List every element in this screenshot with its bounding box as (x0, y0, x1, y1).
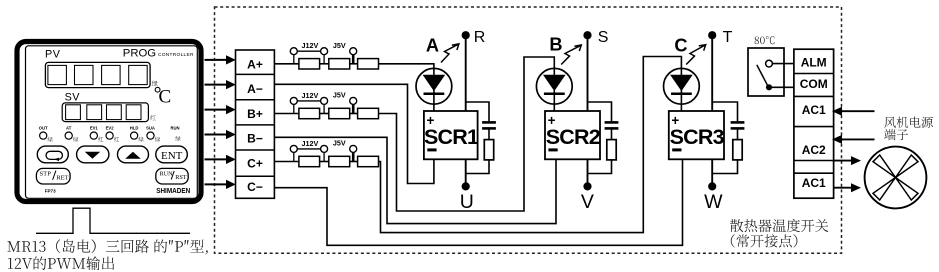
svg-text:SHIMADEN: SHIMADEN (156, 186, 190, 195)
svg-text:PV: PV (45, 49, 61, 61)
wire phase line R (465, 35, 467, 186)
svg-text:B−: B− (247, 132, 263, 146)
wire PWM output arrow to B- (205, 130, 236, 139)
jumper post 2 C (323, 149, 325, 162)
cooling fan (865, 147, 927, 209)
svg-text:J5V: J5V (333, 91, 346, 100)
node S junction dot (583, 31, 591, 39)
dashed enclosure (SCR power unit) (215, 7, 842, 253)
wire PWM output arrow to A- (205, 80, 236, 89)
fan power terminal block ALM/COM/AC1/AC2/AC1 (794, 49, 834, 198)
wire snubber branch ch2 (588, 102, 612, 121)
wire snubber return ch3 (712, 160, 737, 174)
svg-text:C+: C+ (247, 156, 263, 170)
opto LED D3 (664, 68, 700, 104)
svg-text:J5V: J5V (333, 41, 346, 50)
input terminal block A+/A-/B+/B-/C+/C- (236, 50, 275, 198)
SCR module U2 (SCR2) (545, 111, 600, 159)
SCR module U3 (SCR3) (669, 111, 724, 159)
svg-text:RST: RST (175, 174, 187, 181)
snubber resistor Rs2 (607, 140, 616, 160)
snubber resistor Rs1 (484, 140, 493, 160)
arrow fan power in AC1 (832, 107, 875, 116)
svg-text:U: U (460, 191, 474, 213)
wire PWM output arrow to B+ (205, 105, 236, 114)
led SUA color (155, 137, 160, 142)
svg-text:HLD: HLD (130, 126, 139, 131)
jumper link J12V A (294, 50, 324, 52)
resistor R2B (329, 108, 350, 118)
node T junction dot (708, 31, 716, 39)
jumper post 2 A (323, 51, 325, 64)
resistor R1B (299, 108, 320, 118)
SCR module U1 (SCR1) (424, 111, 478, 159)
led OUT color (48, 137, 53, 142)
svg-text:AC1: AC1 (802, 103, 826, 117)
wire snubber return ch2 (588, 160, 612, 174)
svg-text:J12V: J12V (302, 41, 319, 50)
svg-text:AC1: AC1 (802, 176, 826, 190)
opto LED D2 (536, 68, 572, 104)
jumper post 1 A (293, 51, 295, 64)
label 80C (755, 36, 775, 44)
jumper post 3 A (J5V open) (352, 51, 355, 64)
svg-text:SCR3: SCR3 (670, 125, 725, 149)
node V junction dot (583, 182, 591, 190)
svg-text:C−: C− (247, 180, 263, 194)
svg-text:B: B (549, 35, 562, 55)
red char SV (150, 115, 156, 120)
svg-text:ALM: ALM (801, 55, 827, 69)
resistor R1A (299, 59, 320, 69)
pin - of SCR3 (672, 148, 681, 151)
svg-text:SUA: SUA (146, 126, 155, 131)
wire bracket below controller (36, 208, 190, 233)
svg-text:T: T (723, 29, 733, 46)
wire snubber branch ch1 (466, 102, 489, 121)
snubber capacitor C3 (731, 121, 745, 124)
svg-text:A: A (426, 35, 439, 55)
node W junction dot (708, 182, 716, 190)
svg-text:RUN: RUN (170, 126, 179, 131)
wire A+ chain to LED A (379, 64, 434, 69)
svg-text:RET: RET (56, 174, 68, 181)
svg-text:PROG: PROG (123, 48, 156, 60)
svg-text:AC2: AC2 (802, 143, 826, 157)
label fan power line1 (884, 117, 933, 128)
svg-text:W: W (704, 191, 723, 213)
green char PV (152, 81, 158, 87)
wire B- return to SCR2 cathode (274, 137, 556, 223)
svg-text:J12V: J12V (302, 139, 319, 148)
resistor R1C (299, 156, 320, 166)
led AT color (73, 137, 78, 142)
snubber capacitor C1 (482, 121, 496, 124)
svg-text:S: S (598, 29, 609, 46)
firing arrow A (441, 44, 459, 63)
led HLD color (139, 137, 144, 142)
wire PWM output arrow to C+ (205, 155, 236, 164)
jumper post 2 B (323, 101, 325, 114)
wire phase line T (711, 35, 713, 186)
resistor R3C (358, 156, 379, 166)
jumper link J12V B (294, 100, 324, 102)
svg-text:FP73: FP73 (45, 188, 56, 193)
led EV2 color (114, 137, 119, 142)
svg-text:RUN: RUN (160, 170, 174, 177)
led EV1 color (98, 137, 103, 142)
svg-text:CONTROLLER: CONTROLLER (158, 52, 194, 58)
svg-text:J12V: J12V (302, 91, 319, 100)
svg-text:A+: A+ (247, 58, 263, 72)
svg-text:EV1: EV1 (90, 126, 99, 131)
wire PWM output arrow to A+ (205, 55, 236, 64)
jumper link J12V C (294, 148, 324, 150)
resistor R2A (329, 59, 350, 69)
node R junction dot (462, 31, 470, 39)
run color (175, 136, 180, 141)
snubber resistor Rs3 (733, 140, 742, 160)
wire A+ row (274, 63, 299, 65)
svg-text:V: V (581, 191, 594, 213)
wire C+ row (274, 161, 299, 163)
jumper post 1 C (293, 149, 295, 162)
svg-text:A−: A− (247, 82, 263, 96)
svg-text:SCR1: SCR1 (424, 125, 479, 149)
wire A- return to SCR1 cathode (274, 84, 434, 183)
svg-text:J5V: J5V (333, 139, 346, 148)
svg-text:EV2: EV2 (106, 126, 115, 131)
arrow fan power in AC2 (832, 135, 875, 144)
svg-text:C: C (674, 36, 687, 56)
svg-text:C: C (159, 87, 172, 108)
temperature controller SHIMADEN FP73 (17, 42, 201, 202)
pin - of SCR2 (548, 148, 557, 151)
label fan power line2 (884, 129, 908, 140)
firing arrow C (686, 45, 706, 65)
svg-text:COM: COM (800, 77, 828, 91)
pin - of SCR1 (427, 148, 436, 151)
label heatsink switch line2 (731, 234, 798, 247)
jumper post 3 B (J5V open) (352, 101, 355, 114)
firing arrow B (561, 45, 581, 65)
node U junction dot (462, 182, 470, 190)
svg-text:AT: AT (66, 126, 72, 131)
wire C+ chain to LED C riser (379, 57, 682, 233)
resistor R3A (358, 59, 379, 69)
wire snubber branch ch3 (712, 102, 737, 121)
svg-text:STP: STP (40, 171, 52, 178)
resistor R3B (358, 108, 379, 118)
svg-text:R: R (474, 29, 486, 46)
snubber capacitor C2 (605, 121, 619, 124)
wire B+ row (274, 113, 299, 115)
jumper post 3 C (J5V open) (352, 149, 355, 162)
arrow to fan 1 (834, 156, 861, 165)
wire phase line S (587, 35, 589, 186)
opto LED D1 (416, 68, 452, 104)
wire snubber return ch1 (466, 160, 489, 174)
svg-text:SCR2: SCR2 (546, 125, 601, 149)
wire B+ chain to LED B riser (379, 57, 555, 211)
caption line1 (7, 239, 207, 254)
resistor R2C (329, 156, 350, 166)
thermal switch 80C (normally open) (748, 48, 794, 96)
svg-text:SV: SV (65, 92, 81, 104)
wire PWM output arrow to C- (205, 180, 236, 189)
caption line2 (8, 256, 114, 270)
svg-text:B+: B+ (247, 107, 263, 121)
label heatsink switch line1 (730, 219, 828, 232)
arrow to fan 2 (834, 183, 861, 192)
jumper post 1 B (293, 101, 295, 114)
svg-text:ENT: ENT (161, 150, 183, 162)
svg-text:OUT: OUT (39, 126, 48, 131)
wire C- return to SCR3 cathode (274, 159, 682, 245)
